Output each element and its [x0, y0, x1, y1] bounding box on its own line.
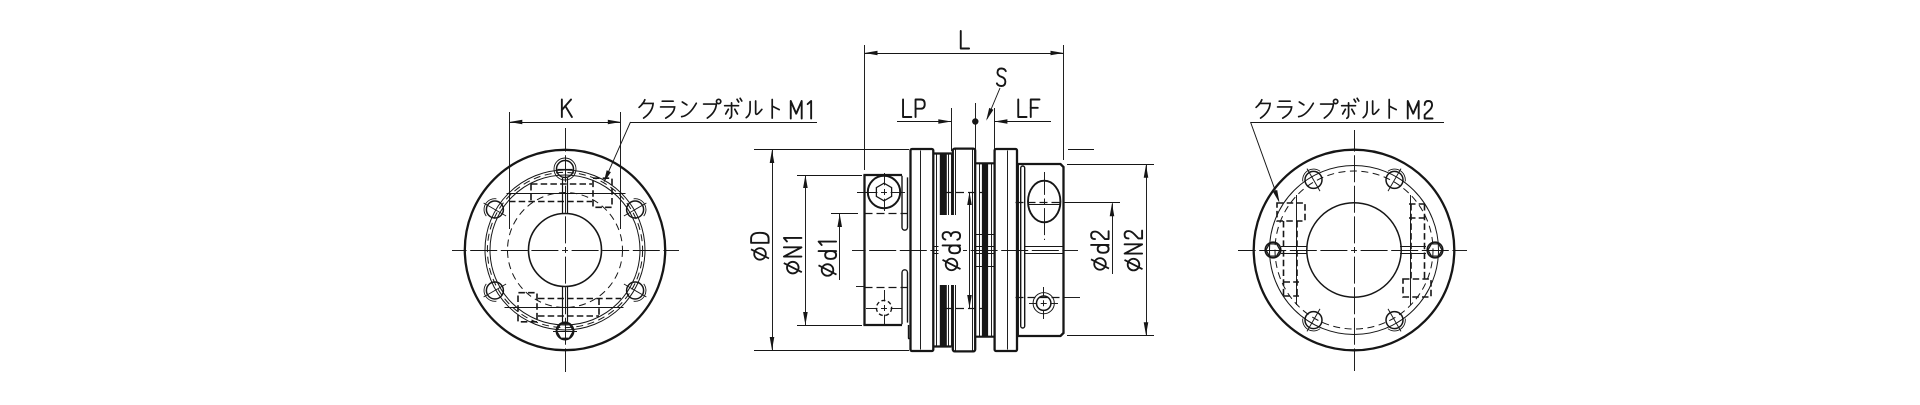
- right view hidden clamp slot (right group): [1403, 279, 1431, 297]
- right hub slit slot: [1021, 166, 1025, 328]
- right view bolt at 300: [1386, 312, 1403, 329]
- left hub hidden tapped hole: [876, 300, 891, 315]
- left view hub circle: [490, 175, 640, 325]
- left view bolt at 30: [627, 201, 644, 218]
- left view bolt circle (dashed): [487, 172, 642, 327]
- right hub clamp bolt hole (oval): [1028, 181, 1060, 223]
- extension line right flange top: [1068, 149, 1094, 151]
- left hub (section): [863, 175, 865, 325]
- dimension phid3: [969, 192, 971, 308]
- left disc pack (black): [940, 153, 947, 348]
- right hub tapped hole: [1037, 296, 1051, 310]
- left view bolt at 330: [627, 282, 644, 299]
- dimension phiD: [754, 149, 909, 151]
- left hub socket bolt: [881, 192, 887, 194]
- dimension S (leader with dot): [997, 69, 1006, 87]
- right view bolt at 0 (hex): [1427, 242, 1443, 258]
- spacer hidden bore lines d3: [944, 192, 987, 194]
- left view bore circle d1: [529, 214, 602, 287]
- right view bolt at 120: [1305, 171, 1322, 188]
- right hub hidden bore lines d2: [1016, 202, 1064, 204]
- label clamp bolt M2: [1256, 100, 1270, 118]
- right view slot chord lines: [1296, 195, 1298, 305]
- left flange plate: [911, 149, 934, 351]
- left disc pack washers: [933, 152, 951, 154]
- dimension LF: [1018, 100, 1026, 118]
- right view centerlines: [1351, 250, 1357, 252]
- left view bolt at 270 (bottom, hex): [556, 322, 573, 339]
- dimension K: [509, 112, 511, 229]
- right view bore circle d2: [1307, 203, 1401, 297]
- left view centerlines: [562, 250, 568, 252]
- dimension phiN1: [797, 175, 862, 177]
- left hub clamp slit slots: [902, 176, 908, 230]
- right view bolt at 240: [1305, 312, 1322, 329]
- right disc pack (black): [982, 163, 988, 338]
- label clamp bolt M1: [639, 100, 653, 118]
- left view clamp slit lines (top and bottom): [562, 178, 564, 214]
- right view clamp slit lines: [1281, 246, 1307, 248]
- left view slot chord lines: [507, 193, 626, 195]
- left view bolt at 90 (top, socket head): [557, 161, 574, 178]
- right view bolt circle (dashed): [1275, 171, 1433, 329]
- left view bolt at 150: [486, 201, 503, 218]
- left view hidden clamp slot (top group): [531, 183, 592, 185]
- right hub (section): [1017, 164, 1064, 336]
- left view spacer bore circle (dashed): [508, 193, 623, 308]
- left view bolt at 210: [486, 282, 503, 299]
- right view hub circle: [1270, 166, 1439, 335]
- left view disc ring circle: [485, 170, 645, 330]
- right disc pack washers: [975, 162, 994, 164]
- dimension phiN2: [1067, 164, 1154, 166]
- right hub slit lines: [1025, 246, 1064, 248]
- right view hidden clamp slot (left group): [1277, 203, 1305, 221]
- left hub hidden bore lines d1: [865, 213, 908, 215]
- middle view main centerline: [961, 250, 967, 252]
- right flange plate: [995, 149, 1017, 351]
- right view bolt at 180 (hex): [1265, 242, 1281, 258]
- left view hidden clamp slot (bottom group): [538, 315, 599, 317]
- dimension phid1: [831, 213, 858, 215]
- center spacer: [953, 149, 975, 352]
- right view bolt at 60: [1386, 171, 1403, 188]
- dimension L: [864, 45, 866, 170]
- right view outer circle: [1254, 150, 1455, 351]
- dimension LP: [903, 100, 911, 118]
- dimension phid2: [1064, 202, 1120, 204]
- left view outer circle (flange OD): [465, 150, 665, 350]
